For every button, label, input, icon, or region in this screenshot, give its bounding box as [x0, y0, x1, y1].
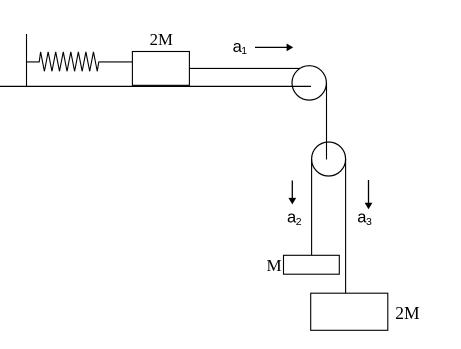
arrow a1 (rightward) [255, 46, 288, 48]
rope: lower pulley right side to block 2M [345, 159, 347, 293]
svg-text:2M: 2M [395, 303, 420, 323]
svg-text:a1: a1 [233, 38, 248, 57]
rope: top pulley down to lower pulley [326, 83, 328, 160]
svg-text:a2: a2 [287, 209, 302, 228]
ground / table line [0, 85, 311, 87]
svg-text:2M: 2M [150, 30, 173, 49]
svg-text:a3: a3 [357, 209, 372, 228]
arrow a3 (downward) [368, 180, 370, 204]
rope: lower pulley left side to block M [311, 159, 313, 255]
svg-text:M: M [267, 256, 282, 275]
wall [26, 34, 28, 86]
arrow a2 (downward) [291, 181, 293, 200]
rope: block to top pulley [189, 67, 300, 69]
pulley P1 (top) [292, 66, 326, 100]
pulley P2 (lower) [312, 142, 346, 176]
block M [284, 255, 340, 274]
spring [27, 52, 133, 71]
block 2M (on table) [132, 52, 189, 86]
block 2M (hanging) [311, 293, 388, 330]
